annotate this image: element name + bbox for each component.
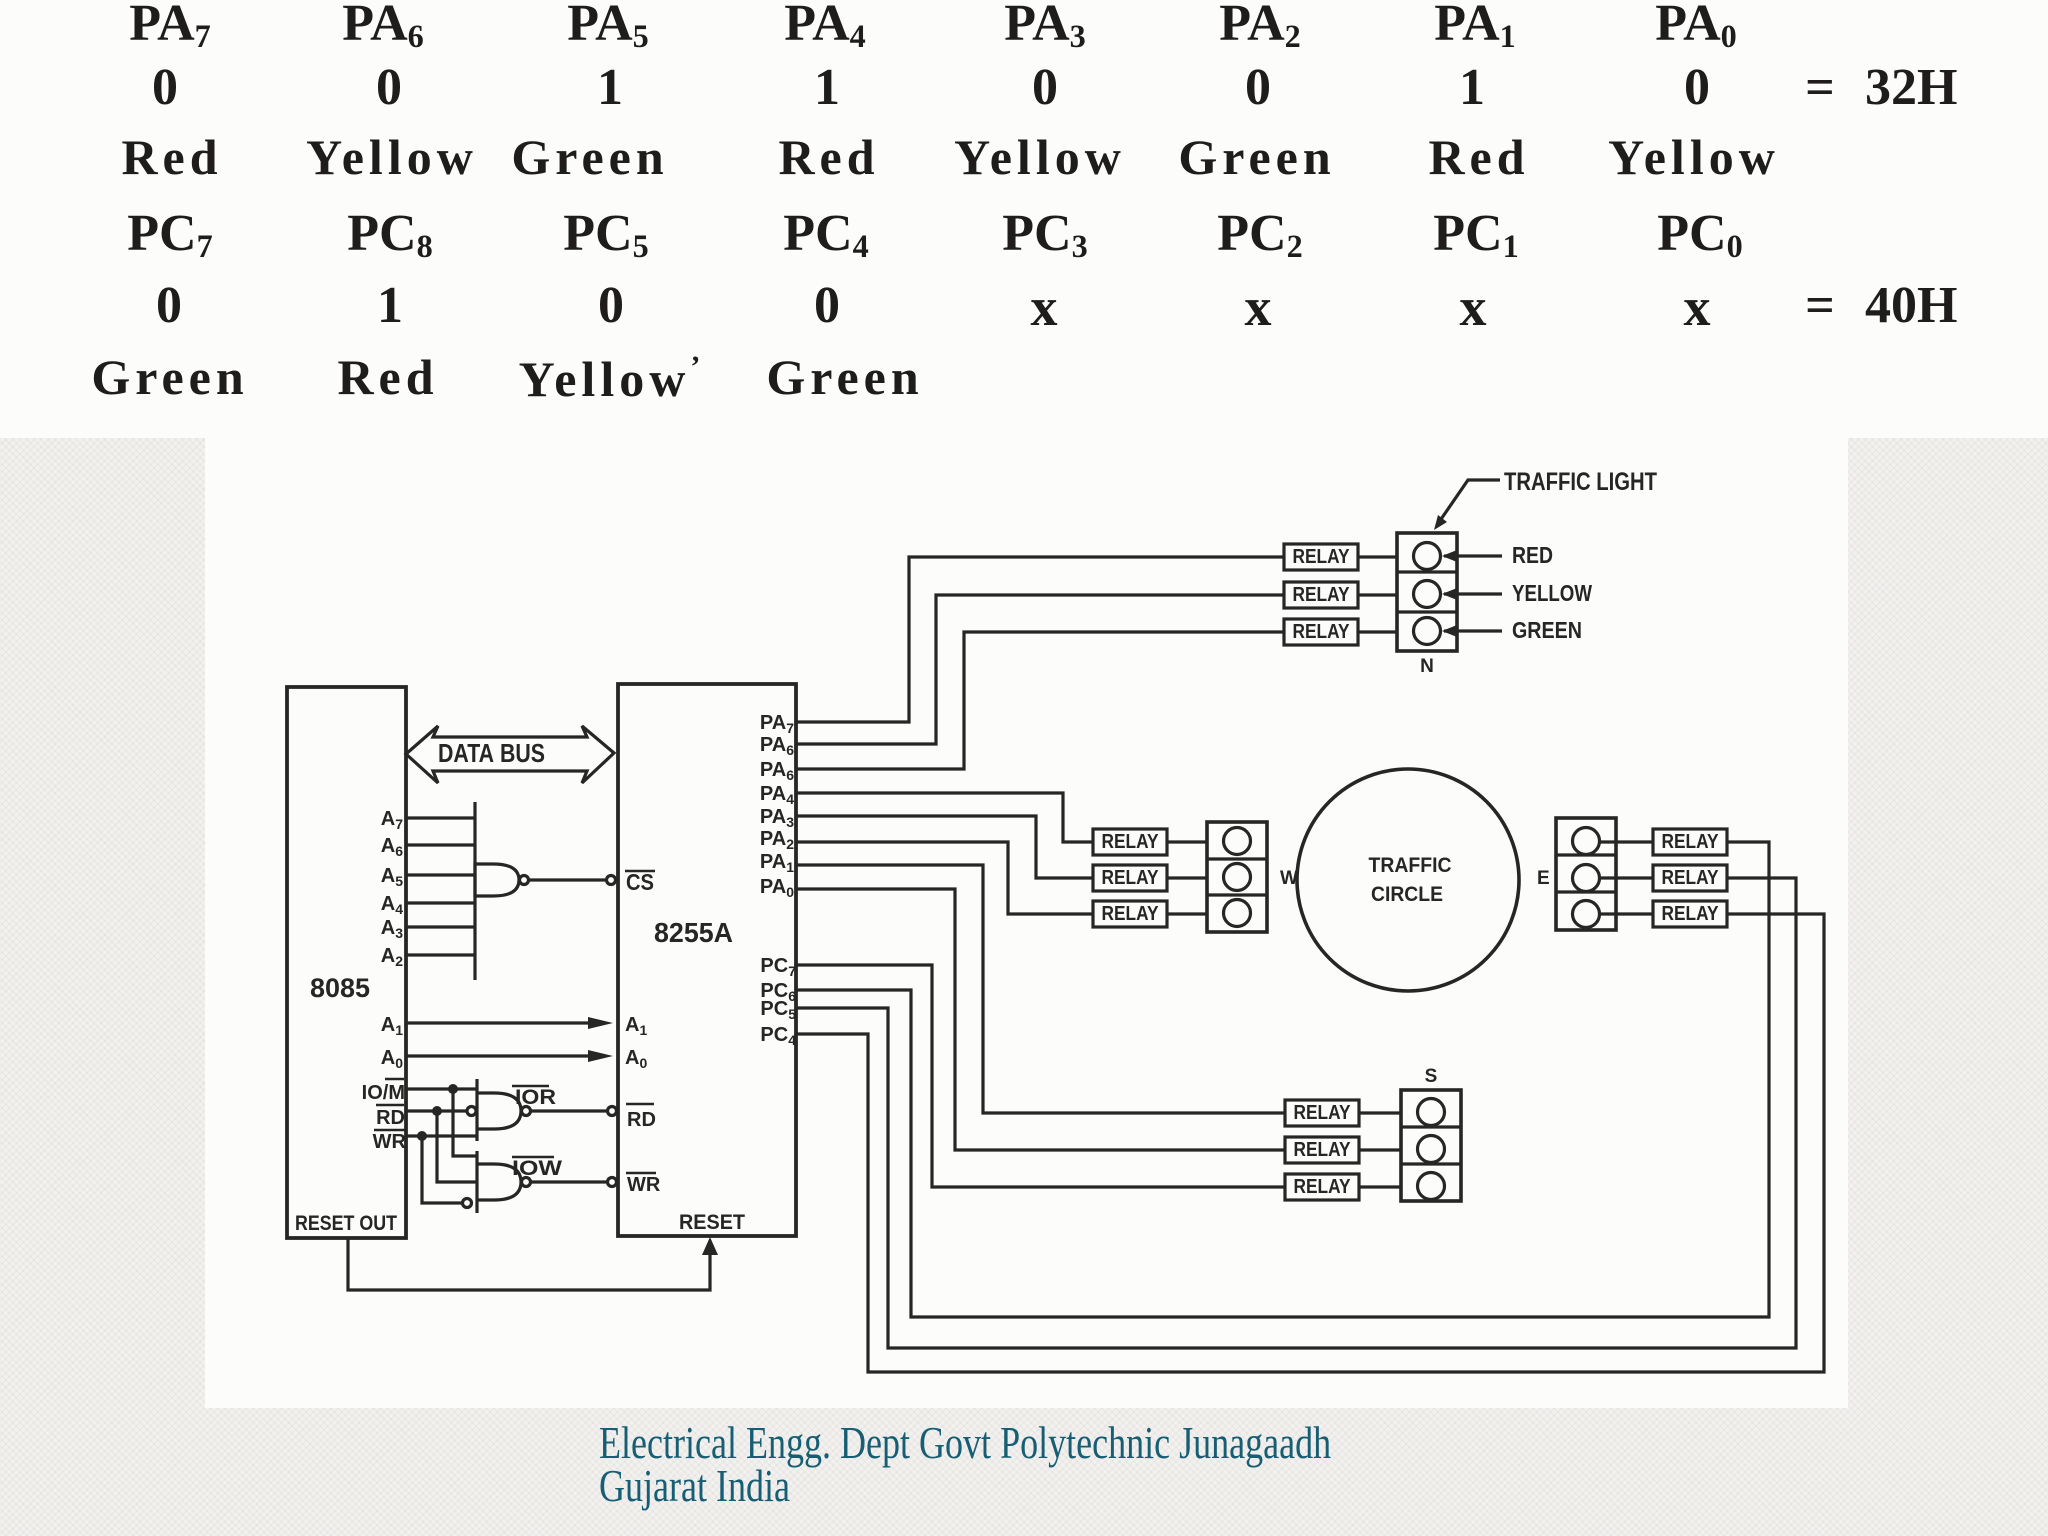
svg-text:GREEN: GREEN xyxy=(1512,617,1582,643)
NAND gate U3 body xyxy=(477,1093,521,1129)
wire WR xyxy=(406,1134,477,1137)
svg-text:PA2: PA2 xyxy=(760,828,794,852)
arrowhead GREEN xyxy=(1442,625,1457,637)
svg-text:RELAY: RELAY xyxy=(1102,867,1160,889)
wire PC4 to E green relay xyxy=(796,914,1824,1372)
reset wire 8085 to 8255A xyxy=(348,1238,710,1290)
junction RD xyxy=(432,1106,442,1116)
traffic light W box xyxy=(1207,822,1267,932)
svg-text:E: E xyxy=(1537,868,1550,889)
relay N green box xyxy=(1284,619,1358,645)
relay N red box xyxy=(1284,544,1358,570)
8255A WR input bubble xyxy=(608,1178,617,1187)
wire U2 output to CS xyxy=(529,878,605,881)
NAND U2 output bubble xyxy=(520,876,529,885)
pointer wire YELLOW xyxy=(1444,592,1502,595)
arrowhead A0 xyxy=(588,1050,613,1062)
wire PA6 to N yellow relay xyxy=(796,595,1284,744)
svg-text:RELAY: RELAY xyxy=(1102,903,1160,925)
wire N green relay to lamp xyxy=(1358,630,1397,633)
lamp S red xyxy=(1418,1099,1445,1126)
svg-text:A1: A1 xyxy=(381,1014,403,1038)
traffic light S box xyxy=(1401,1090,1461,1201)
wire PA5 to N green relay xyxy=(796,632,1284,769)
relay S red box xyxy=(1285,1100,1359,1126)
wire N red relay to lamp xyxy=(1358,555,1397,558)
svg-text:CS: CS xyxy=(626,869,654,895)
arrowhead leader xyxy=(1434,515,1447,530)
U4 input bubble (WR) xyxy=(463,1199,472,1208)
svg-text:PA0: PA0 xyxy=(760,876,794,900)
svg-text:PA1: PA1 xyxy=(760,851,794,875)
relay E yellow box xyxy=(1653,865,1727,891)
NAND gate U4 (IOW) input edge xyxy=(475,1151,478,1213)
caption xyxy=(599,1420,1331,1466)
address bus collector line xyxy=(473,802,476,980)
CS input bubble xyxy=(607,876,616,885)
svg-text:RESET: RESET xyxy=(679,1211,745,1234)
svg-text:YELLOW: YELLOW xyxy=(1512,580,1592,606)
svg-text:N: N xyxy=(1420,656,1434,677)
svg-text:8085: 8085 xyxy=(310,973,370,1003)
lamp N red xyxy=(1414,543,1441,570)
lamp N green xyxy=(1414,618,1441,645)
svg-text:RELAY: RELAY xyxy=(1662,831,1720,853)
arrowhead RED xyxy=(1442,550,1457,562)
wire A3 xyxy=(406,925,475,928)
wire PA7 to N red relay xyxy=(796,557,1284,722)
svg-text:RED: RED xyxy=(1512,542,1553,568)
wire N yellow relay to lamp xyxy=(1358,593,1397,596)
relay E red box xyxy=(1653,829,1727,855)
overline WR (8255A) xyxy=(626,1172,656,1175)
junction WR xyxy=(417,1131,427,1141)
svg-text:RELAY: RELAY xyxy=(1102,831,1160,853)
peripheral 8255A box xyxy=(618,684,796,1236)
pointer wire RED xyxy=(1444,554,1502,557)
svg-text:PA6: PA6 xyxy=(760,734,794,758)
NAND gate U2 (chip-select decoder) xyxy=(475,864,519,896)
lamp W yellow xyxy=(1224,864,1251,891)
overline RD (8255A) xyxy=(626,1103,654,1106)
svg-text:PC4: PC4 xyxy=(760,1024,796,1048)
wire PA2 to W green relay xyxy=(796,842,1093,914)
svg-text:PA7: PA7 xyxy=(760,712,794,736)
traffic circle xyxy=(1297,769,1519,991)
svg-text:RD: RD xyxy=(376,1107,405,1129)
wire A4 xyxy=(406,901,475,904)
svg-text:RELAY: RELAY xyxy=(1293,584,1351,606)
wire W red relay to lamp xyxy=(1167,840,1207,843)
data bus arrow xyxy=(406,726,614,783)
lamp E red xyxy=(1573,828,1600,855)
wire E green lamp to relay xyxy=(1599,912,1653,915)
wire IOW to 8255A WR xyxy=(531,1180,606,1183)
wire IOR to 8255A RD xyxy=(531,1109,606,1112)
wire RD branch down xyxy=(437,1111,477,1182)
wire A6 xyxy=(406,843,475,846)
overline IOR xyxy=(512,1085,549,1088)
svg-text:RELAY: RELAY xyxy=(1662,867,1720,889)
svg-text:RELAY: RELAY xyxy=(1293,621,1351,643)
svg-text:IOW: IOW xyxy=(512,1157,562,1180)
svg-text:A0: A0 xyxy=(625,1047,647,1071)
svg-text:A2: A2 xyxy=(381,945,403,969)
overline M of IO/M xyxy=(385,1078,404,1081)
svg-text:IOR: IOR xyxy=(515,1086,556,1109)
relay W red box xyxy=(1093,829,1167,855)
svg-text:A6: A6 xyxy=(381,835,403,859)
svg-text:DATA BUS: DATA BUS xyxy=(438,738,545,768)
table row 5: bits = 40H xyxy=(0,280,2048,336)
traffic light N box xyxy=(1397,533,1457,651)
table row 6: colours xyxy=(0,352,2048,408)
wire A1 to 8255A xyxy=(406,1021,592,1024)
svg-text:RELAY: RELAY xyxy=(1294,1176,1352,1198)
svg-text:RELAY: RELAY xyxy=(1293,546,1351,568)
svg-text:A4: A4 xyxy=(381,893,403,917)
wire A0 to 8255A xyxy=(406,1054,592,1057)
wire W green relay to lamp xyxy=(1167,912,1207,915)
svg-text:WR: WR xyxy=(373,1131,407,1153)
svg-text:RD: RD xyxy=(627,1109,656,1131)
8255A RD input bubble xyxy=(608,1107,617,1116)
microprocessor 8085 box xyxy=(287,687,406,1238)
svg-text:WR: WR xyxy=(627,1174,661,1196)
wire RD xyxy=(406,1109,467,1112)
relay N yellow box xyxy=(1284,582,1358,608)
table row 3: colours xyxy=(0,132,2048,188)
relay W yellow box xyxy=(1093,865,1167,891)
overline CS xyxy=(625,870,655,873)
wire IO/M xyxy=(406,1087,477,1090)
junction IO/M xyxy=(448,1084,458,1094)
wire S green relay to lamp xyxy=(1359,1185,1401,1188)
svg-text:CIRCLE: CIRCLE xyxy=(1371,883,1443,906)
lamp S green xyxy=(1418,1173,1445,1200)
svg-text:A1: A1 xyxy=(625,1014,647,1038)
svg-text:RELAY: RELAY xyxy=(1294,1102,1352,1124)
scanned table background xyxy=(0,0,2048,438)
arrowhead YELLOW xyxy=(1442,588,1457,600)
svg-text:TRAFFIC: TRAFFIC xyxy=(1369,854,1452,877)
wire A5 xyxy=(406,873,475,876)
table row 1: PA labels xyxy=(0,0,2048,54)
wire W yellow relay to lamp xyxy=(1167,876,1207,879)
overline RD (8085) xyxy=(376,1104,404,1107)
svg-text:TRAFFIC LIGHT: TRAFFIC LIGHT xyxy=(1504,468,1657,496)
wire S red relay to lamp xyxy=(1359,1111,1401,1114)
svg-text:RELAY: RELAY xyxy=(1662,903,1720,925)
wire IO/M to IOW gate xyxy=(453,1089,477,1156)
U3 input bubble (RD) xyxy=(467,1107,476,1116)
svg-text:8255A: 8255A xyxy=(654,917,733,948)
overline IOW xyxy=(512,1156,554,1159)
lamp W red xyxy=(1224,828,1251,855)
scanned circuit background xyxy=(205,438,1848,1408)
svg-text:PA3: PA3 xyxy=(760,806,794,830)
svg-text:PA6: PA6 xyxy=(760,759,794,783)
wire PC6 to E red relay xyxy=(796,842,1769,1317)
svg-text:A7: A7 xyxy=(381,808,403,832)
wire PC5 to E yellow relay xyxy=(796,878,1796,1348)
svg-text:PA4: PA4 xyxy=(760,783,794,807)
svg-text:A3: A3 xyxy=(381,917,403,941)
svg-text:W: W xyxy=(1280,868,1298,889)
wire E red lamp to relay xyxy=(1599,840,1653,843)
wire PA1 to S red relay xyxy=(796,865,1285,1113)
wire A2 xyxy=(406,953,475,956)
overline WR (8085) xyxy=(374,1129,405,1132)
lamp S yellow xyxy=(1418,1136,1445,1163)
relay S yellow box xyxy=(1285,1137,1359,1163)
table row 2: bits = 32H xyxy=(0,62,2048,118)
traffic light E box xyxy=(1556,818,1616,930)
wire E yellow lamp to relay xyxy=(1599,876,1653,879)
pointer wire GREEN xyxy=(1444,629,1502,632)
relay E green box xyxy=(1653,901,1727,927)
leader line TRAFFIC LIGHT xyxy=(1437,480,1500,525)
wire PC7 to S green relay xyxy=(796,965,1285,1187)
NAND gate U4 body xyxy=(477,1164,521,1200)
wire PA4 to W red relay xyxy=(796,793,1093,842)
wire WR branch to IOW input xyxy=(422,1136,462,1203)
svg-text:RELAY: RELAY xyxy=(1294,1139,1352,1161)
svg-text:PC7: PC7 xyxy=(760,955,796,979)
arrowhead A1 xyxy=(588,1017,613,1029)
U4 output bubble xyxy=(522,1178,531,1187)
svg-text:IO/M: IO/M xyxy=(362,1082,405,1104)
wire PA0 to S yellow relay xyxy=(796,889,1285,1150)
arrowhead reset xyxy=(702,1237,718,1255)
NAND gate U3 (IOR) input edge xyxy=(475,1079,478,1141)
lamp E yellow xyxy=(1573,865,1600,892)
lamp W green xyxy=(1224,900,1251,927)
lamp N yellow xyxy=(1414,581,1441,608)
wire PA3 to W yellow relay xyxy=(796,816,1093,878)
table row 4: PC labels xyxy=(0,208,2048,264)
svg-text:A5: A5 xyxy=(381,865,403,889)
relay S green box xyxy=(1285,1174,1359,1200)
U3 output bubble xyxy=(522,1107,531,1116)
svg-text:RESET OUT: RESET OUT xyxy=(295,1212,397,1235)
lamp E green xyxy=(1573,901,1600,928)
svg-text:A0: A0 xyxy=(381,1047,403,1071)
wire S yellow relay to lamp xyxy=(1359,1148,1401,1151)
wire A7 xyxy=(406,816,475,819)
relay W green box xyxy=(1093,901,1167,927)
svg-text:S: S xyxy=(1425,1066,1438,1087)
